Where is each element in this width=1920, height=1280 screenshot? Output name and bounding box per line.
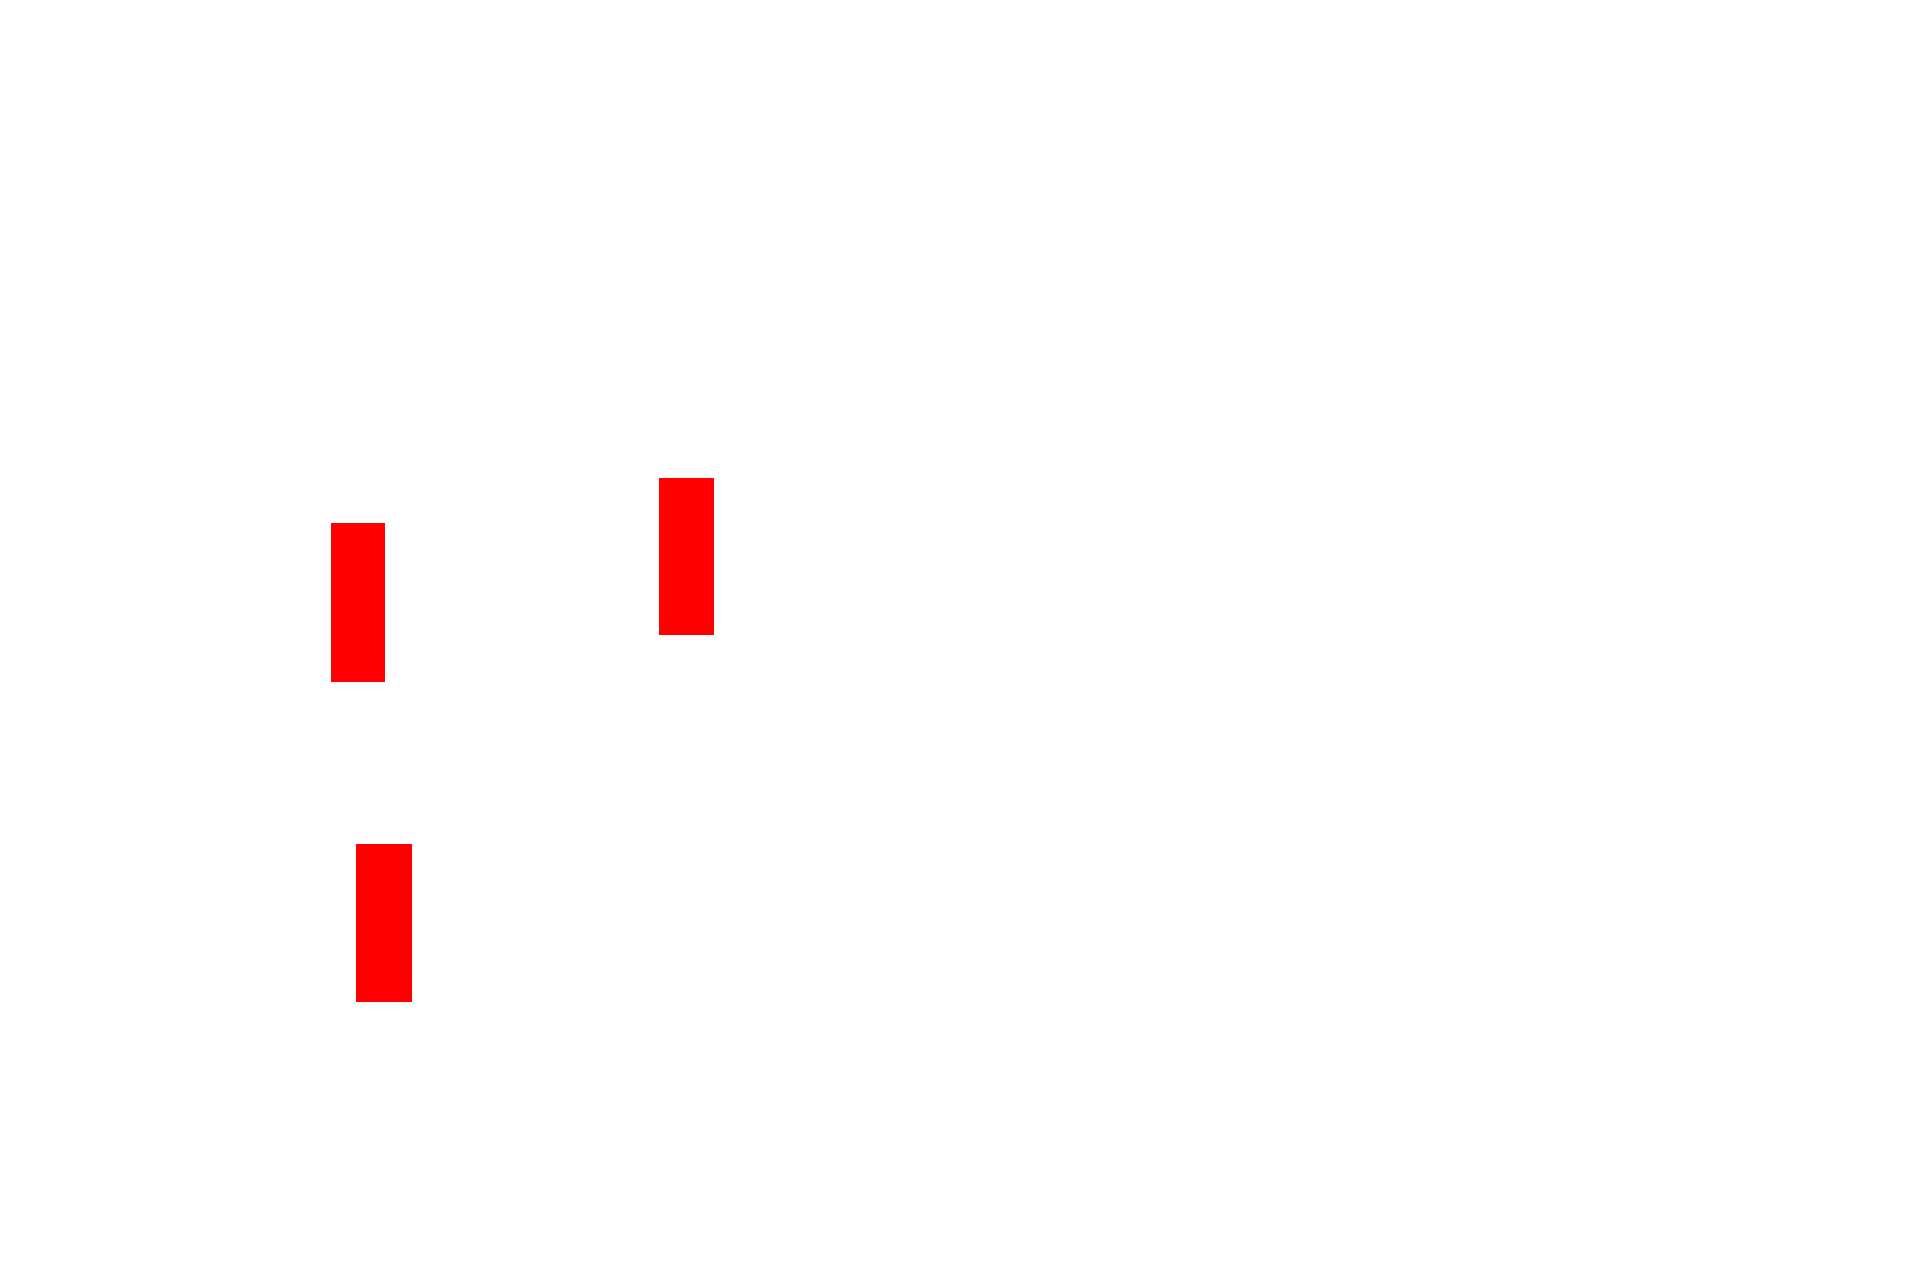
red bar 3 xyxy=(356,844,412,1002)
red bar 2 xyxy=(659,478,714,635)
red bar 1 xyxy=(331,523,385,682)
